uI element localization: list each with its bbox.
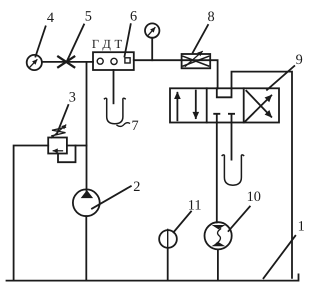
apparatus 6 box xyxy=(93,52,134,70)
label 4 xyxy=(47,10,54,26)
pressure gauge 4 xyxy=(27,55,42,70)
leader to box 6 xyxy=(125,24,131,56)
distributor cross arrow 1 xyxy=(245,96,271,122)
relief valve 3 pilot loop xyxy=(58,146,76,163)
device 11 vertical line xyxy=(167,229,169,248)
label 3 xyxy=(69,90,76,106)
leader to valve 5 xyxy=(67,25,84,62)
leader to device 11 xyxy=(174,212,192,233)
wire: distributor to measuring tube xyxy=(231,123,233,160)
svg-text:10: 10 xyxy=(247,189,261,205)
relief valve 3 spring xyxy=(52,127,66,136)
leader to pump xyxy=(92,186,131,208)
valve 8 throttle X xyxy=(183,56,208,66)
unlabeled gauge xyxy=(145,23,159,37)
leader to motor xyxy=(229,207,250,232)
relief valve 3 body xyxy=(48,138,67,154)
box 6 port circle 2 xyxy=(111,58,117,64)
wire: distributor to motor xyxy=(216,123,218,223)
label 11 xyxy=(188,197,202,213)
wire: valve3 outlet to pump riser xyxy=(67,145,87,147)
tube 7 squiggle xyxy=(117,123,130,127)
flow control valve 8 body xyxy=(182,54,211,68)
distributor divider 2 xyxy=(243,88,245,122)
label 10 xyxy=(247,189,261,205)
letters GDT xyxy=(92,37,123,51)
svg-text:7: 7 xyxy=(132,118,139,134)
label 1 xyxy=(298,219,305,235)
valve 8 adjust arrow xyxy=(185,52,202,67)
svg-text:4: 4 xyxy=(47,10,54,26)
wire: main line gauge4 to box6 xyxy=(42,61,93,63)
leader to tank xyxy=(264,236,296,278)
box 6 port circle 1 xyxy=(97,58,103,64)
gauge stem wire xyxy=(151,38,153,60)
relief valve 3 internal arrow xyxy=(53,150,62,152)
svg-text:9: 9 xyxy=(296,52,303,68)
svg-text:Г: Г xyxy=(92,37,99,51)
svg-text:5: 5 xyxy=(85,9,92,25)
distributor left down arrow xyxy=(195,91,197,119)
distributor bottom stub 2 xyxy=(229,114,234,123)
device 11 circle xyxy=(159,230,177,248)
box 6 port square xyxy=(125,58,130,63)
svg-text:Д: Д xyxy=(102,37,111,51)
leader to gauge 4 xyxy=(36,26,46,56)
leader to valve 3 xyxy=(57,105,68,134)
label 7 xyxy=(132,118,139,134)
relief valve 3 adjust arrow xyxy=(52,125,66,138)
distributor bottom stub 1 xyxy=(214,114,219,123)
motor 10 top triangle xyxy=(212,225,226,229)
svg-text:Т: Т xyxy=(115,37,123,51)
tank bottom line xyxy=(7,274,299,280)
wire: drain from box 6 to tube 7 xyxy=(113,70,115,103)
wire: device 11 drain xyxy=(167,249,169,281)
svg-text:1: 1 xyxy=(298,219,305,235)
svg-text:6: 6 xyxy=(130,9,137,25)
pump 2 circle xyxy=(73,189,100,216)
label 9 xyxy=(296,52,303,68)
wire: motor drain xyxy=(217,249,219,280)
wire: box6 to distributor drop xyxy=(134,60,218,88)
label 6 xyxy=(130,9,137,25)
distributor divider 1 xyxy=(206,88,208,122)
pump 2 triangle xyxy=(81,190,93,198)
leader to distributor xyxy=(267,66,294,90)
wire: pump suction xyxy=(85,216,87,280)
shutoff valve 5 xyxy=(58,57,74,68)
svg-text:3: 3 xyxy=(69,90,76,106)
wire: loop to right return line xyxy=(232,72,293,278)
unlabeled gauge needle xyxy=(149,28,155,35)
wire: pump riser xyxy=(86,62,88,191)
label 5 xyxy=(85,9,92,25)
motor 10 circle xyxy=(205,222,232,249)
label 2 xyxy=(133,179,140,195)
svg-text:8: 8 xyxy=(208,9,215,25)
motor 10 squiggle xyxy=(216,229,220,244)
distributor 9 body xyxy=(170,88,279,122)
wire: left drain line xyxy=(14,146,49,281)
label 8 xyxy=(208,9,215,25)
measuring tube 7 xyxy=(105,98,126,123)
svg-text:2: 2 xyxy=(133,179,140,195)
distributor cross arrow 2 xyxy=(246,91,271,117)
distributor centre notch xyxy=(217,88,232,97)
distributor left up arrow xyxy=(176,93,178,121)
measuring tube under distributor xyxy=(222,155,243,185)
leader to valve 8 xyxy=(193,25,208,53)
svg-text:11: 11 xyxy=(188,197,202,213)
gauge 4 needle xyxy=(30,60,37,67)
motor 10 bottom triangle xyxy=(211,242,225,246)
